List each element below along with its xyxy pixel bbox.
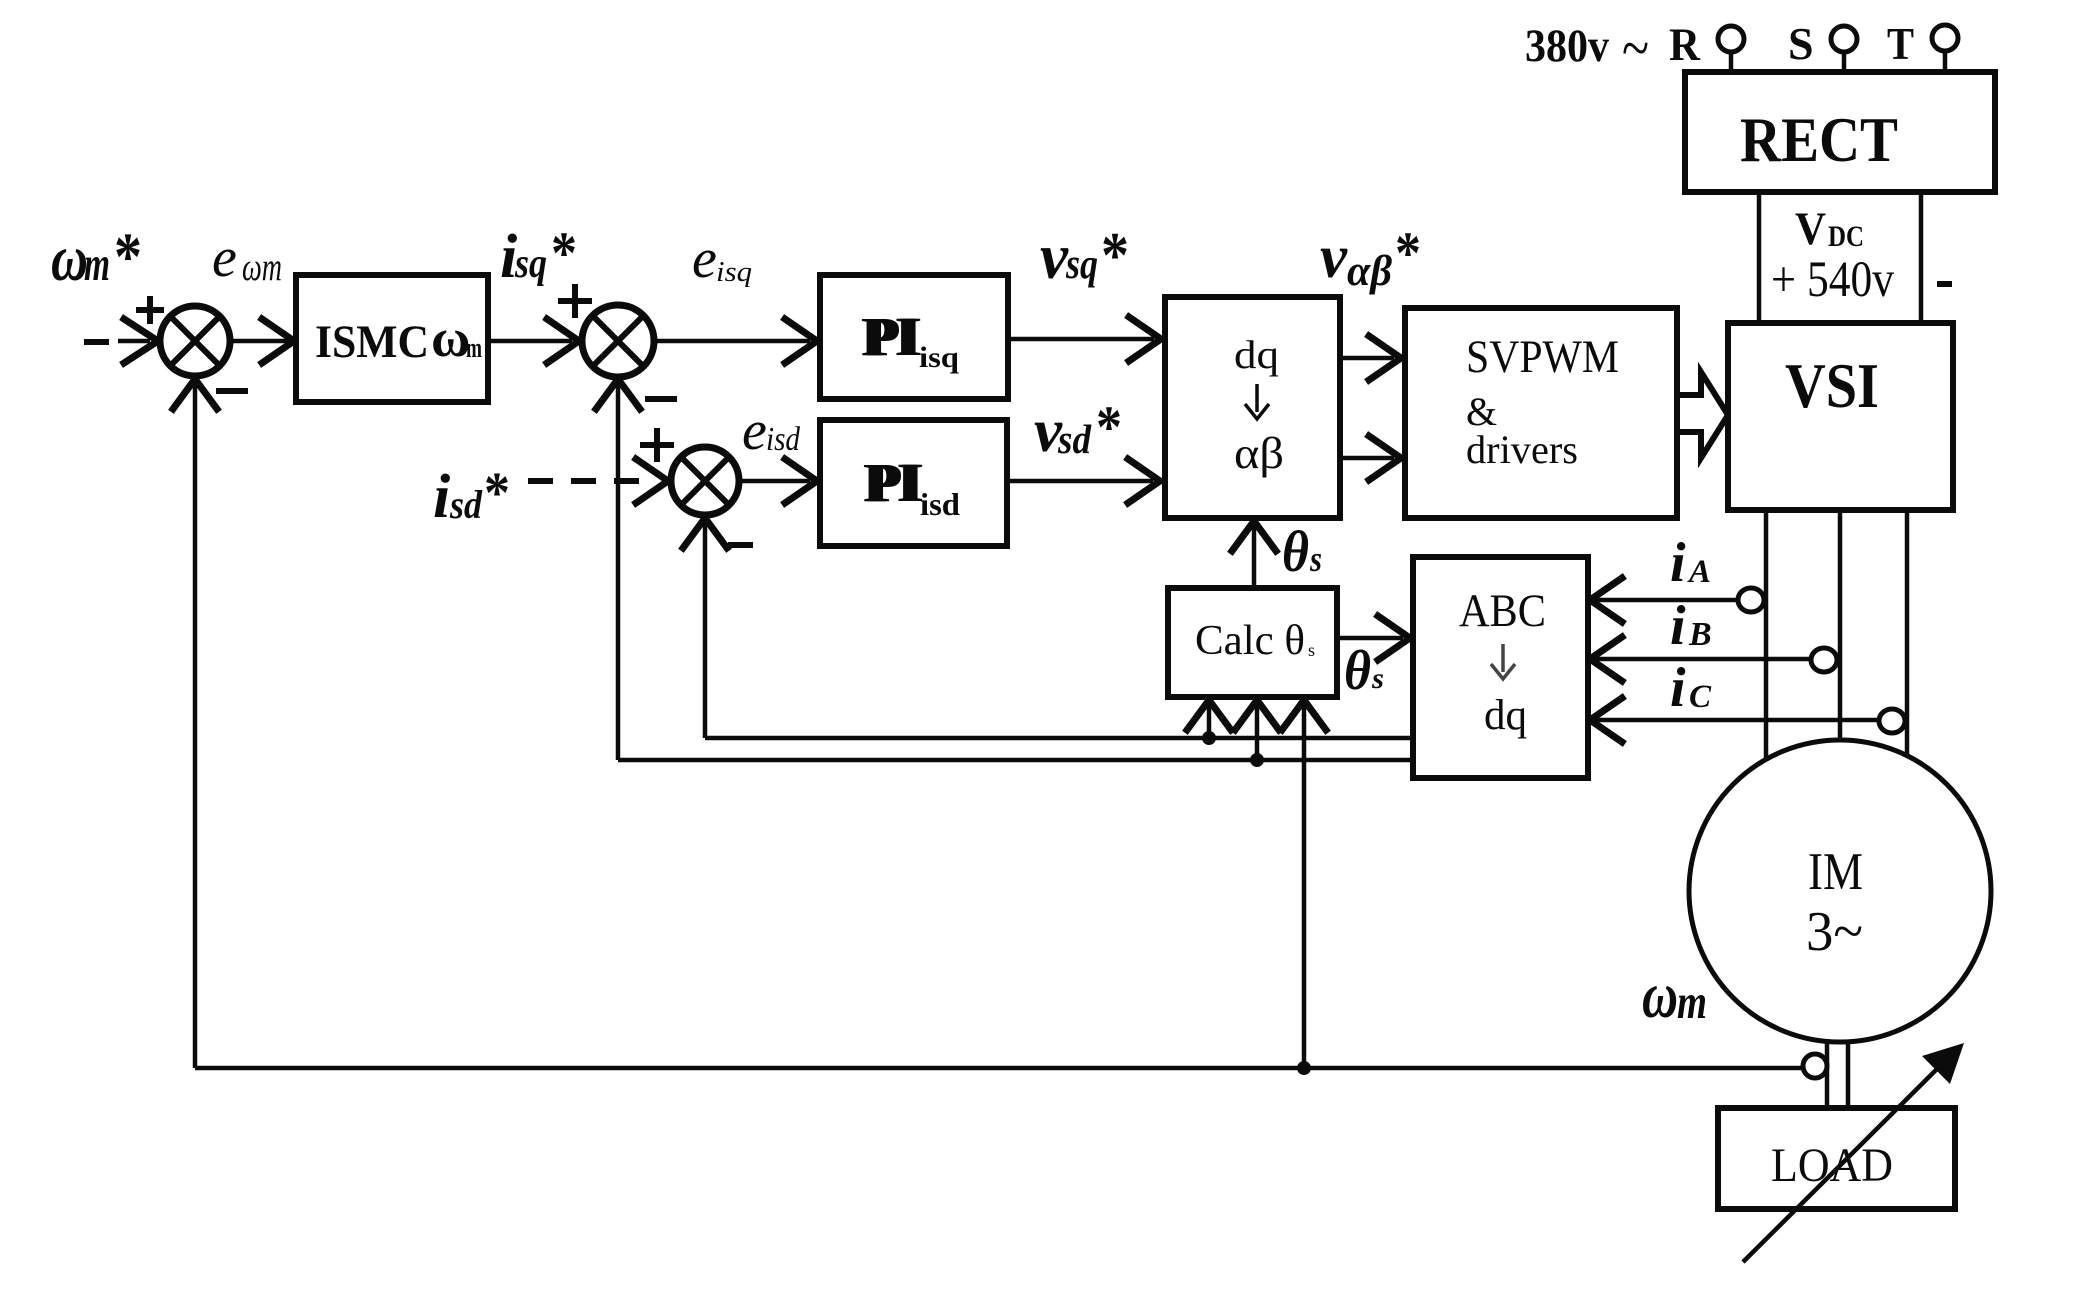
svg-text:~: ~	[1622, 12, 1649, 83]
svg-text:VSI: VSI	[1785, 351, 1879, 421]
svg-text:isd: isd	[766, 421, 801, 458]
svg-text:sq: sq	[514, 241, 547, 287]
svg-text:drivers: drivers	[1466, 427, 1578, 472]
svg-text:RECT: RECT	[1740, 105, 1898, 175]
svg-text:m: m	[1677, 974, 1707, 1029]
svg-text:m: m	[466, 333, 482, 364]
svg-text:isq: isq	[716, 257, 752, 288]
svg-text:dq: dq	[1234, 332, 1279, 377]
svg-text:sq: sq	[1065, 241, 1098, 288]
svg-text:i: i	[433, 463, 450, 531]
svg-text:SVPWM: SVPWM	[1466, 331, 1619, 383]
svg-text:ω: ω	[51, 222, 88, 295]
svg-text:isd: isd	[920, 486, 960, 522]
svg-text:*: *	[114, 218, 142, 294]
svg-text:LOAD: LOAD	[1771, 1139, 1893, 1192]
svg-text:e: e	[742, 400, 767, 462]
svg-text:*: *	[1101, 219, 1129, 292]
svg-text:e: e	[692, 228, 717, 290]
svg-text:θ: θ	[1282, 519, 1309, 584]
svg-text:*: *	[1395, 220, 1421, 286]
svg-text:αβ: αβ	[1347, 248, 1392, 295]
svg-text:s: s	[1371, 662, 1384, 695]
svg-text:3~: 3~	[1806, 901, 1863, 963]
svg-text:V: V	[1795, 203, 1826, 255]
svg-text:ω: ω	[431, 308, 470, 368]
svg-text:s: s	[1308, 640, 1315, 660]
svg-text:A: A	[1687, 554, 1711, 590]
svg-text:m: m	[84, 236, 110, 291]
svg-text:s: s	[1309, 539, 1322, 579]
svg-text:*: *	[1096, 394, 1122, 460]
svg-text:i: i	[1670, 657, 1686, 719]
svg-text:C: C	[1689, 679, 1712, 715]
svg-text:i: i	[1670, 532, 1686, 594]
svg-text:dq: dq	[1484, 692, 1527, 739]
svg-text:sd: sd	[449, 482, 483, 527]
svg-text:v: v	[1320, 224, 1348, 291]
svg-text:ω: ω	[1642, 959, 1678, 1032]
svg-text:*: *	[551, 220, 577, 286]
svg-text:T: T	[1887, 18, 1914, 69]
svg-text:i: i	[1670, 595, 1686, 657]
svg-text:IM: IM	[1808, 843, 1863, 901]
svg-text:PI: PI	[864, 306, 919, 367]
svg-text:v: v	[1040, 221, 1069, 293]
svg-text:ABC: ABC	[1459, 585, 1546, 637]
svg-text:380v: 380v	[1525, 20, 1609, 72]
svg-text:θ: θ	[1344, 640, 1371, 702]
svg-text:*: *	[484, 460, 510, 525]
svg-text:S: S	[1788, 18, 1814, 69]
svg-text:+: +	[1771, 252, 1796, 308]
svg-text:ISMC: ISMC	[315, 316, 429, 368]
svg-text:sd: sd	[1057, 416, 1091, 462]
svg-text:PI: PI	[866, 452, 921, 513]
svg-text:R: R	[1669, 19, 1701, 71]
svg-text:Calc θ: Calc θ	[1195, 618, 1305, 664]
svg-text:540v: 540v	[1807, 252, 1894, 308]
svg-text:B: B	[1688, 616, 1712, 653]
svg-text:ωm: ωm	[242, 244, 282, 289]
svg-text:e: e	[212, 227, 237, 289]
svg-text:αβ: αβ	[1234, 429, 1284, 478]
svg-text:DC: DC	[1828, 220, 1864, 253]
svg-text:isq: isq	[919, 341, 959, 374]
